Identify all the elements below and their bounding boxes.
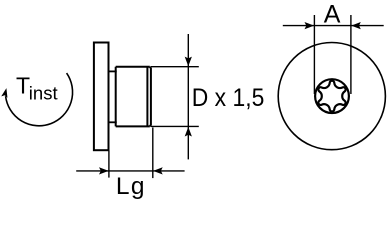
extension line left (flange right edge extended): [108, 151, 110, 178]
Lg dimension: [76, 128, 184, 179]
arrow left-pointing at right ext: [351, 22, 361, 29]
torx star: [318, 81, 345, 112]
arrow down at top ext: [185, 57, 192, 67]
right extension line: [350, 15, 352, 94]
D x 1,5 dimension: [151, 34, 199, 159]
svg-text:D x 1,5: D x 1,5: [192, 84, 264, 112]
arrow right-pointing at left ext: [305, 22, 315, 29]
neck line top: [109, 70, 117, 72]
arrow right-pointing at left ext: [99, 167, 109, 174]
extension line bottom: [151, 125, 199, 127]
dim line: [283, 25, 384, 27]
torx socket circle: [315, 79, 349, 113]
end face: [150, 67, 151, 127]
dim line: [187, 34, 189, 159]
thread end chamfer line: [146, 67, 148, 127]
neck line bottom: [109, 121, 117, 123]
threaded body outline: [116, 67, 151, 127]
A dimension: [283, 15, 384, 94]
extension line right: [152, 128, 154, 179]
dim line: [76, 170, 184, 172]
svg-text:inst: inst: [29, 83, 58, 104]
svg-text:A: A: [324, 0, 341, 28]
arrow left-pointing at right ext: [153, 167, 163, 174]
left extension line: [313, 15, 315, 94]
torque arrowhead: [1, 87, 9, 97]
torque arc: [6, 73, 73, 126]
flange head: [94, 43, 109, 151]
svg-text:Lg: Lg: [116, 173, 146, 200]
arrow up at bottom ext: [185, 127, 192, 137]
extension line top (body top edge extended): [151, 66, 199, 68]
flange outer circle: [278, 43, 385, 150]
